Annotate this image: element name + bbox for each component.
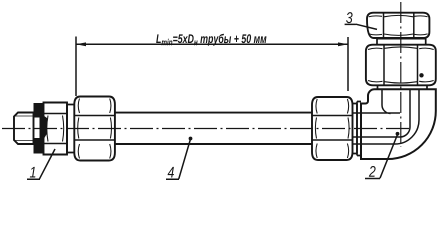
drain hole dot on big nut	[419, 73, 423, 77]
dimension text "Lmin=5хDн трубы + 50 мм"	[156, 34, 266, 46]
top hex nut	[367, 13, 429, 38]
left coupling nut	[74, 97, 115, 161]
elbow bore: middle bend line	[353, 89, 411, 137]
elbow bore: upper tube line with inner bend	[353, 89, 401, 113]
label 4 leader with dot	[166, 139, 191, 179]
label 2 text	[369, 166, 376, 177]
right coupling nut	[312, 97, 353, 160]
pipe (tube)	[115, 113, 312, 144]
washer between nuts	[377, 39, 426, 45]
dimension arrow right	[338, 42, 348, 46]
label 1 text	[30, 167, 36, 178]
extension line left	[75, 37, 77, 97]
label 2 leader with dot	[365, 135, 398, 179]
label 3 text	[346, 12, 353, 23]
elbow body outline	[361, 89, 436, 159]
label 1 leader	[27, 149, 55, 179]
collar below top hex nut	[378, 85, 428, 89]
extension line right	[347, 37, 349, 91]
collar between hex body and left nut	[67, 105, 74, 153]
horizontal centerline of pipe axis	[2, 128, 410, 130]
vertical centerline of elbow assembly	[400, 2, 402, 147]
label 3 leader	[345, 24, 377, 29]
dimension arrow left	[76, 42, 86, 46]
elbow bore: lower tube line with outer bend	[353, 89, 420, 144]
sealing washer (black)	[34, 103, 44, 154]
thread minor lines	[14, 116, 34, 141]
hex body of union fitting	[44, 103, 68, 155]
label 4 text	[168, 167, 174, 178]
collar between right nut and elbow	[353, 104, 358, 154]
upper assembly: big hex nut	[366, 45, 436, 86]
dimension line	[76, 43, 348, 45]
threaded stud (left end)	[14, 113, 34, 145]
